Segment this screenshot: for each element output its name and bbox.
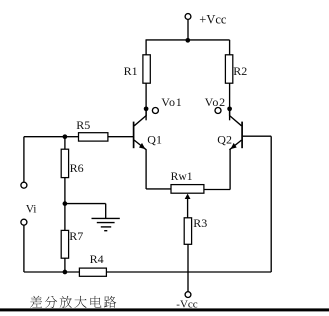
svg-text:Q1: Q1 [147, 133, 162, 147]
transistor Q2 [229, 109, 242, 150]
potentiometer Rw1 [171, 185, 204, 194]
wire R3 to -Vcc [187, 244, 189, 291]
junction ground node [63, 201, 68, 206]
wire R6 to ground node [64, 178, 66, 204]
resistor R3 [184, 218, 191, 245]
node Vo2 junction [227, 106, 232, 111]
svg-text:R6: R6 [70, 161, 84, 175]
-Vcc terminal [185, 292, 191, 298]
junction R5/R6 [63, 134, 68, 139]
svg-text:Vi: Vi [26, 204, 37, 216]
wire R7 to bottom wire [64, 258, 66, 272]
svg-text:R1: R1 [124, 64, 138, 78]
wire junction to R5 [65, 136, 79, 138]
wire Q1 base to R5 [108, 136, 134, 138]
+Vcc terminal [185, 14, 191, 20]
wire Q1 emitter to Rw1 [146, 188, 171, 190]
wire bottom right segment [106, 271, 271, 273]
wire ground node to ground [65, 203, 106, 205]
wire Vcc terminal to rail [187, 19, 189, 40]
svg-text:R4: R4 [90, 252, 104, 266]
terminal Vo2 [215, 108, 221, 114]
svg-text:R5: R5 [76, 118, 90, 132]
wire right vertical to Q2 base [270, 136, 272, 272]
junction Vcc rail [185, 38, 190, 43]
resistor R1 [143, 55, 150, 83]
terminal input upper [21, 182, 27, 188]
svg-text:Q2: Q2 [217, 133, 232, 147]
svg-text:R7: R7 [69, 229, 83, 243]
svg-text:R2: R2 [233, 64, 247, 78]
wire rail to R2 [229, 40, 231, 55]
wire top rail [146, 39, 230, 41]
wire Q2 base to right [242, 135, 271, 137]
svg-text:Rw1: Rw1 [171, 170, 193, 183]
wire R1 to Vo1 node [145, 83, 147, 120]
svg-text:Vo1: Vo1 [161, 95, 182, 109]
wire Q2 emitter down [229, 149, 231, 189]
svg-text:+Vcc: +Vcc [199, 12, 227, 26]
wire left node to R5 [24, 136, 65, 138]
resistor R5 [79, 133, 108, 141]
terminal input lower [21, 219, 27, 225]
Rw1 wiper arrow [185, 194, 191, 199]
svg-text:R3: R3 [193, 216, 207, 230]
terminal Vo1 [152, 108, 158, 114]
ground [92, 204, 120, 231]
resistor R2 [225, 55, 232, 83]
junction bottom left [63, 270, 68, 275]
resistor R7 [61, 230, 68, 258]
wire node to R7 [64, 204, 66, 231]
svg-text:Vo2: Vo2 [205, 95, 226, 109]
wire wiper to R3 [187, 199, 189, 218]
bottom rule line [0, 308, 329, 311]
wire rail to R1 [145, 40, 147, 55]
resistor R6 [64, 137, 66, 150]
transistor Q1 [134, 109, 147, 150]
wire Q2 emitter to Rw1 [204, 189, 230, 191]
wire R2 to Vo2 node [229, 83, 231, 120]
wire Q1 emitter down [145, 149, 147, 189]
wire down to upper input terminal [23, 137, 25, 183]
resistor R4 [79, 268, 106, 276]
node Vo1 junction [144, 106, 149, 111]
wire bottom left segment [24, 271, 80, 273]
wire lower terminal down [23, 225, 25, 272]
label title 差分放大电路 [30, 296, 116, 308]
